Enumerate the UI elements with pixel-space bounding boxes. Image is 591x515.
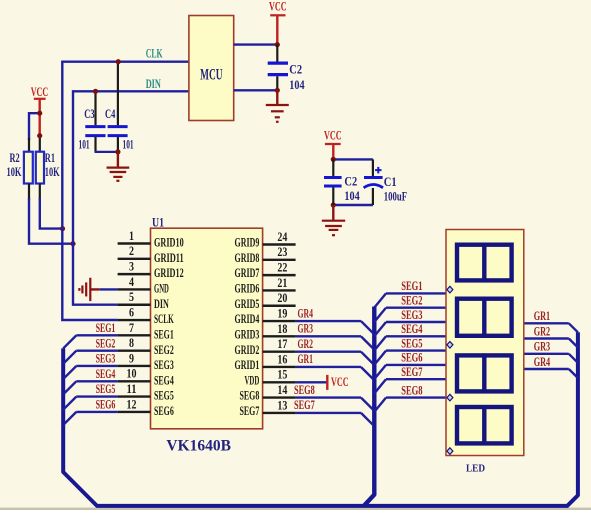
svg-text:GR2: GR2 [534, 324, 551, 338]
svg-text:C2: C2 [289, 63, 302, 77]
svg-text:SEG4: SEG4 [96, 367, 116, 381]
svg-text:104: 104 [344, 189, 359, 203]
svg-text:6: 6 [129, 305, 134, 319]
svg-text:SEG8: SEG8 [294, 383, 315, 397]
svg-text:GR1: GR1 [534, 309, 551, 323]
svg-text:11: 11 [127, 382, 137, 396]
svg-text:13: 13 [277, 398, 287, 412]
svg-text:SEG6: SEG6 [401, 351, 422, 365]
svg-text:SEG6: SEG6 [96, 398, 116, 412]
svg-text:GR4: GR4 [298, 306, 314, 320]
svg-text:SEG1: SEG1 [154, 327, 174, 341]
svg-text:100uF: 100uF [384, 190, 407, 204]
svg-text:VCC: VCC [31, 85, 49, 99]
svg-text:DIN: DIN [154, 297, 169, 311]
svg-text:GRID2: GRID2 [235, 343, 260, 357]
svg-text:VCC: VCC [324, 129, 342, 143]
svg-text:19: 19 [277, 306, 287, 320]
svg-text:10K: 10K [45, 165, 60, 179]
svg-text:SEG3: SEG3 [401, 308, 422, 322]
svg-text:SEG5: SEG5 [154, 389, 174, 403]
svg-text:3: 3 [129, 260, 134, 274]
svg-text:SEG8: SEG8 [240, 389, 260, 403]
svg-text:GRID9: GRID9 [235, 236, 260, 250]
svg-text:VCC: VCC [331, 375, 349, 389]
svg-text:DIN: DIN [146, 77, 161, 91]
svg-text:GR2: GR2 [298, 337, 314, 351]
svg-text:GR3: GR3 [298, 322, 314, 336]
svg-text:C3: C3 [84, 107, 94, 121]
svg-text:SEG3: SEG3 [154, 358, 174, 372]
svg-text:2: 2 [129, 244, 134, 258]
svg-text:8: 8 [129, 336, 134, 350]
svg-text:R2: R2 [10, 151, 20, 165]
svg-text:9: 9 [129, 351, 134, 365]
svg-text:SEG5: SEG5 [96, 382, 116, 396]
svg-text:22: 22 [277, 261, 287, 275]
svg-text:5: 5 [129, 290, 134, 304]
svg-text:SEG6: SEG6 [154, 404, 174, 418]
svg-text:C4: C4 [105, 107, 115, 121]
svg-text:GRID8: GRID8 [235, 251, 260, 265]
svg-text:SEG7: SEG7 [294, 398, 315, 412]
svg-text:18: 18 [277, 322, 287, 336]
svg-text:23: 23 [277, 245, 287, 259]
svg-text:VCC: VCC [269, 0, 287, 13]
svg-text:20: 20 [277, 291, 287, 305]
svg-text:GRID10: GRID10 [154, 236, 184, 250]
svg-text:GND: GND [154, 282, 169, 296]
svg-text:SEG4: SEG4 [154, 373, 174, 387]
svg-text:SEG5: SEG5 [401, 336, 422, 350]
svg-text:24: 24 [277, 230, 287, 244]
svg-text:SEG1: SEG1 [96, 321, 116, 335]
svg-text:GR3: GR3 [534, 340, 551, 354]
svg-text:GRID3: GRID3 [235, 327, 260, 341]
svg-text:7: 7 [129, 321, 134, 335]
svg-text:U1: U1 [152, 216, 164, 230]
svg-text:17: 17 [277, 337, 287, 351]
svg-text:GRID1: GRID1 [235, 358, 260, 372]
svg-text:LED: LED [466, 463, 485, 475]
svg-text:SEG2: SEG2 [96, 336, 116, 350]
svg-text:GR4: GR4 [534, 355, 551, 369]
svg-text:MCU: MCU [200, 67, 222, 84]
svg-text:C1: C1 [384, 175, 397, 189]
svg-text:101: 101 [79, 138, 90, 152]
svg-text:SEG7: SEG7 [240, 404, 260, 418]
svg-text:10: 10 [127, 367, 137, 381]
svg-text:GRID6: GRID6 [235, 282, 260, 296]
svg-text:21: 21 [277, 276, 287, 290]
svg-text:104: 104 [289, 78, 304, 92]
svg-text:SEG3: SEG3 [96, 352, 116, 366]
svg-text:GRID11: GRID11 [154, 251, 184, 265]
svg-text:SCLK: SCLK [154, 312, 174, 326]
svg-text:101: 101 [123, 138, 134, 152]
svg-text:14: 14 [277, 383, 287, 397]
svg-text:VK1640B: VK1640B [166, 438, 231, 455]
svg-text:GRID7: GRID7 [235, 266, 260, 280]
svg-text:R1: R1 [45, 151, 55, 165]
svg-text:16: 16 [277, 352, 287, 366]
svg-text:GRID4: GRID4 [235, 312, 260, 326]
svg-text:1: 1 [129, 229, 134, 243]
svg-text:15: 15 [277, 368, 287, 382]
svg-text:SEG4: SEG4 [401, 322, 422, 336]
svg-text:GRID5: GRID5 [235, 297, 260, 311]
svg-text:CLK: CLK [146, 47, 163, 61]
svg-text:GR1: GR1 [298, 352, 314, 366]
svg-text:SEG2: SEG2 [401, 294, 422, 308]
svg-text:SEG1: SEG1 [401, 279, 422, 293]
svg-text:VDD: VDD [244, 373, 259, 387]
svg-text:SEG7: SEG7 [401, 365, 422, 379]
svg-text:SEG8: SEG8 [401, 383, 422, 397]
svg-text:SEG2: SEG2 [154, 343, 174, 357]
svg-text:4: 4 [129, 275, 134, 289]
svg-text:12: 12 [127, 397, 137, 411]
svg-text:GRID12: GRID12 [154, 266, 184, 280]
svg-text:C2: C2 [344, 175, 357, 189]
svg-text:10K: 10K [7, 165, 22, 179]
